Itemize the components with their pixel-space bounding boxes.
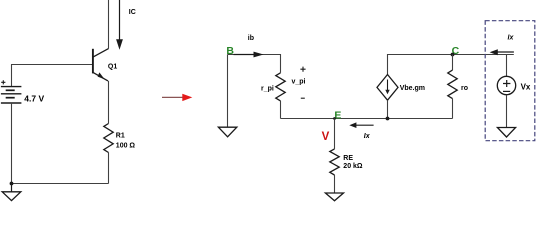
wire r_pi bottom to E rail — [280, 101, 282, 119]
red transform arrow — [162, 94, 192, 101]
resistor RE — [330, 149, 339, 175]
wire emitter to R1 — [108, 81, 110, 124]
svg-text:r_pi: r_pi — [261, 85, 274, 92]
wire E to RE — [334, 119, 336, 149]
ground Vx — [497, 128, 515, 138]
v_pi plus — [300, 67, 305, 72]
svg-text:Vbe.gm: Vbe.gm — [400, 85, 425, 92]
svg-text:IC: IC — [129, 9, 136, 16]
wire ro bottom — [452, 99, 454, 119]
wire bottom horizontal — [11, 183, 109, 185]
dashed box — [485, 21, 535, 141]
transistor Q1 — [93, 49, 109, 81]
svg-text:ib: ib — [248, 35, 254, 42]
wire E rail — [281, 118, 453, 120]
svg-text:100 Ω: 100 Ω — [116, 142, 136, 149]
ib current arrow — [234, 52, 264, 58]
wire base — [11, 64, 92, 66]
wire Vx top lead — [506, 55, 508, 77]
svg-text:V: V — [322, 131, 330, 143]
wire left rail bottom — [11, 103, 13, 184]
wire top right rail — [388, 55, 514, 75]
resistor r_pi — [276, 73, 285, 101]
svg-text:Vx: Vx — [521, 83, 531, 92]
v_pi minus — [301, 97, 305, 99]
wire Vx bottom — [506, 95, 508, 128]
wire B down — [227, 55, 229, 128]
svg-text:20 kΩ: 20 kΩ — [343, 163, 363, 170]
node junction dot source bottom — [386, 117, 390, 121]
battery V1 4.7V — [1, 80, 22, 103]
resistor R1 — [104, 124, 113, 153]
source Vx — [497, 76, 515, 94]
svg-text:4.7 V: 4.7 V — [24, 94, 44, 104]
svg-text:R1: R1 — [116, 132, 125, 139]
ground left — [2, 184, 21, 201]
wire collector vertical — [108, 0, 110, 49]
wire B top to r_pi — [228, 55, 281, 73]
svg-text:Q1: Q1 — [108, 64, 117, 71]
dependent source Vbe.gm — [377, 75, 398, 101]
svg-text:RE: RE — [343, 155, 353, 162]
ground RE — [325, 193, 343, 201]
Ix arrow at E — [349, 122, 373, 128]
node junction dot left — [10, 182, 14, 186]
node junction dot C — [451, 53, 455, 57]
svg-text:v_pi: v_pi — [292, 78, 306, 85]
wire left rail top — [11, 65, 13, 87]
IC current arrow — [116, 0, 123, 50]
svg-text:ro: ro — [461, 85, 468, 92]
wire RE to ground — [334, 175, 336, 193]
wire C to ro — [452, 55, 454, 71]
wire source bottom — [387, 100, 389, 118]
wire R1 bottom — [108, 153, 110, 184]
resistor ro — [448, 70, 457, 99]
ground B — [218, 127, 236, 137]
Ix arrow in box — [490, 49, 514, 55]
node junction dot E — [333, 117, 336, 120]
